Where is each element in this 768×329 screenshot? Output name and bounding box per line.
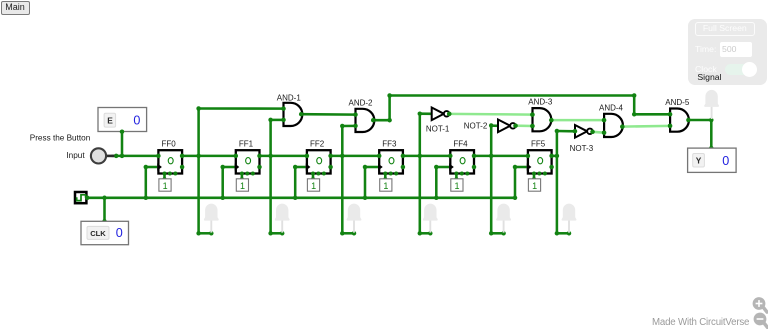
svg-text:1: 1 [311,181,316,191]
svg-text:1: 1 [532,181,537,191]
svg-text:FF0: FF0 [161,139,176,148]
LED L4 on Q3 [423,204,438,233]
wire: hook to LED3 [342,232,354,235]
wire: Q3 riser/dropper at x=419.8 [419,114,422,234]
wire: button/E node to FF0 D input [112,155,159,158]
wire: clock feed to FF3 [365,166,378,169]
wire: hook to LED4 [420,232,431,235]
constant 1 feeding FF0 preset [159,174,171,192]
LED L5 on Q4 [496,204,511,233]
wire: Q0 riser/dropper at x=198.6 [197,109,200,234]
wire: clock feed to FF0 [146,166,157,169]
svg-text:0: 0 [116,226,123,240]
wire: Q2 riser to AND-2 input B [342,125,355,128]
D flip-flop FF3 [377,139,405,175]
wire: Q4 riser to NOT-2 input [491,124,498,127]
svg-text:Y: Y [696,156,702,166]
wire: clock feed to FF5 [515,166,527,169]
Clock Signal toggle [695,64,717,74]
svg-text:NOT-2: NOT-2 [464,122,488,131]
svg-text:NOT-1: NOT-1 [426,125,450,134]
constant 1 feeding FF5 preset [528,174,540,192]
svg-text:FF4: FF4 [453,139,468,148]
wire: Q2 riser/dropper at x=342.3 [341,126,344,233]
wire: Q0 from FF0 to FF1 D input [182,155,236,158]
wire: AND-2 output up and across to AND-5 input A [373,96,670,121]
wire: NOT-3 output to AND-4 input B (high) [593,131,605,134]
LED L7 on output node [704,90,719,119]
svg-text:FF1: FF1 [239,139,254,148]
wire: Q1 riser to AND-1 input B [271,119,284,122]
wire: Q4 riser/dropper at x=491.2 [490,126,493,234]
svg-text:CLK: CLK [90,229,106,238]
LED L1 on Q0 [204,204,219,233]
wire: clock bus to CLK display [103,198,106,222]
clock generator [75,192,90,203]
wire: Q0 riser to AND-1 input A [199,107,284,110]
D flip-flop FF1 [234,139,262,175]
wire: Q5 stub from FF5 to NOT-3 riser [552,155,557,158]
wire: NOT-1 output to AND-3 input A (high) [449,113,532,116]
D flip-flop FF2 [305,139,333,175]
svg-text:Press the Button: Press the Button [30,134,91,143]
wire: AND-1 output to AND-2 input A [301,113,355,116]
wire: AND-3 output to AND-4 input A (high) [551,119,604,122]
svg-text:FF3: FF3 [382,139,397,148]
embed properties panel [688,19,767,85]
constant 1 feeding FF2 preset [307,174,319,192]
wire: Q2 from FF2 to FF3 D input [331,155,380,158]
wire: hook to LED6 [557,232,569,235]
AND gate AND-5 [665,98,690,132]
svg-text:FF2: FF2 [310,139,325,148]
zoom out control [754,313,768,328]
wire: Q3 riser to NOT-1 input [420,112,432,115]
wire: clock feed to FF2 [295,166,306,169]
svg-text:1: 1 [240,181,245,191]
wire: AND-4 output to AND-5 input B (high) [622,125,670,128]
wire: Q1 from FF1 to FF2 D input [260,155,307,158]
svg-text:AND-5: AND-5 [665,98,690,107]
svg-text:0: 0 [133,114,140,128]
Main tab button [1,1,30,15]
D flip-flop FF0 [156,139,184,175]
wire: clock feed to FF1 [223,166,235,169]
wire: E to input node [121,132,124,156]
AND gate AND-1 [277,94,303,126]
Made With CircuitVerse [652,317,749,328]
svg-text:1: 1 [454,181,459,191]
wire: AND-5 output to LED7 / output Y [688,119,711,122]
svg-text:AND-4: AND-4 [599,104,624,113]
wire: hook to LED5 [491,232,503,235]
constant 1 feeding FF1 preset [236,174,248,192]
constant 1 feeding FF4 preset [451,174,463,192]
svg-text:0: 0 [722,154,729,168]
LED L2 on Q1 [275,204,290,233]
svg-text:AND-2: AND-2 [348,99,373,108]
NOT gate NOT-1 [426,108,450,134]
wire: Q3 from FF3 to FF4 D input [403,155,450,158]
NOT gate NOT-3 [570,125,594,153]
D flip-flop FF4 [448,139,476,175]
wire: Q1 riser/dropper at x=270.6 [269,120,272,233]
svg-text:NOT-3: NOT-3 [570,144,594,153]
wire: NOT-2 output to AND-3 input B (high) [516,124,533,127]
svg-text:FF5: FF5 [531,139,546,148]
constant 1 feeding FF3 preset [380,174,392,192]
LED L3 on Q2 [347,204,362,233]
wire: Q5 riser to NOT-3 input [557,130,575,133]
output box Y [688,148,737,172]
Full Screen button [695,22,755,37]
LED L6 on Q5 [562,204,577,233]
NOT gate NOT-2 [464,120,516,133]
D flip-flop FF5 [526,139,554,175]
wire: Q5 riser/dropper at x=556.9 [556,131,559,233]
AND gate AND-2 [348,99,374,133]
svg-text:1: 1 [163,181,168,191]
svg-text:Input: Input [66,151,85,160]
AND gate AND-3 [528,97,553,131]
input box E [98,108,147,132]
svg-text:1: 1 [383,181,388,191]
output display CLK [81,221,129,244]
svg-text:E: E [107,115,113,125]
svg-text:AND-3: AND-3 [528,97,553,106]
Time field [695,44,716,54]
wire: hook to LED2 [271,232,283,235]
zoom in control [745,292,768,329]
AND gate AND-4 [599,104,624,137]
wire: hook to LED1 [199,232,212,235]
wire: clock feed to FF4 [436,166,449,169]
wire: clock bus from clock generator to FF5 [88,197,516,200]
wire: Q4 from FF4 to FF5 D input [474,155,528,158]
push button Input [30,134,115,164]
svg-text:AND-1: AND-1 [277,94,302,103]
